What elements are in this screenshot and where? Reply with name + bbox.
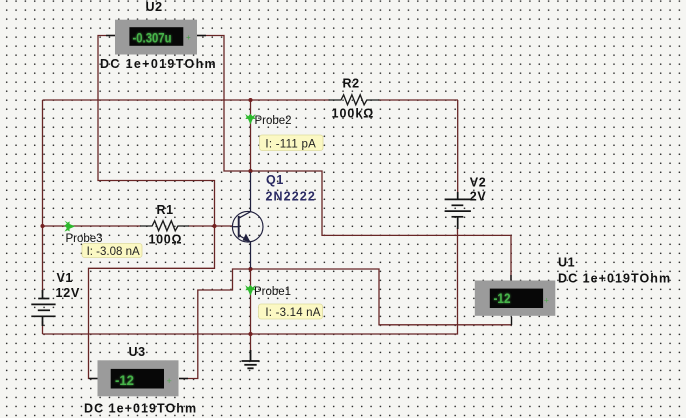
svg-text:DC 1e+019TOhm: DC 1e+019TOhm <box>100 57 217 71</box>
ground <box>242 350 260 368</box>
svg-text:100kΩ: 100kΩ <box>332 107 375 121</box>
transistor Q1 <box>232 172 263 268</box>
node base-right <box>212 224 216 228</box>
svg-text:Q1: Q1 <box>266 173 284 187</box>
svg-text:DC 1e+019TOhm: DC 1e+019TOhm <box>558 272 671 286</box>
wire collector vertical <box>250 100 252 172</box>
wire collector to U1 top <box>251 171 512 281</box>
wire U2 left terminal to base node <box>98 36 215 227</box>
svg-text:U1: U1 <box>558 256 575 270</box>
svg-text:U3: U3 <box>129 345 146 359</box>
svg-text:+: + <box>167 376 172 386</box>
probe Probe3 arrow <box>64 221 75 232</box>
svg-text:Probe1: Probe1 <box>254 286 291 298</box>
meter U3 <box>89 360 188 396</box>
svg-text:Probe3: Probe3 <box>66 233 103 245</box>
probe Probe1 arrow <box>245 285 255 296</box>
junction node dots <box>40 98 252 336</box>
wire top net V1+ to R2 to V2+ <box>43 99 331 101</box>
svg-text:12V: 12V <box>56 286 81 300</box>
svg-text:I: -111 pA: I: -111 pA <box>265 138 316 150</box>
svg-text:U2: U2 <box>146 0 163 14</box>
svg-text:DC 1e+019TOhm: DC 1e+019TOhm <box>84 402 197 416</box>
meter U1 <box>475 275 556 325</box>
svg-text:I: -3.14 nA: I: -3.14 nA <box>265 307 320 319</box>
wire bottom ground bus <box>43 228 458 334</box>
svg-text:Probe2: Probe2 <box>255 115 292 127</box>
node emitter <box>248 267 252 271</box>
Probe2 readout <box>260 135 324 151</box>
battery V2 <box>445 192 471 229</box>
probe Probe2 arrow <box>245 114 255 125</box>
node base-left <box>40 224 44 228</box>
svg-text:2N2222: 2N2222 <box>266 190 316 204</box>
node collector-top <box>248 98 252 102</box>
svg-text:R2: R2 <box>343 77 360 91</box>
wire emitter vertical to ground bus <box>250 268 252 334</box>
svg-text:-12: -12 <box>115 373 134 388</box>
wire V2 top lead <box>457 100 459 194</box>
svg-text:V2: V2 <box>470 176 487 190</box>
node collector-mid <box>248 169 252 173</box>
wire emitter to U1 bottom terminal <box>251 269 512 325</box>
svg-text:-0.307u: -0.307u <box>133 30 172 45</box>
svg-text:V1: V1 <box>57 271 74 285</box>
svg-text:+: + <box>186 33 191 42</box>
meter U2 <box>106 20 206 55</box>
svg-text:100Ω: 100Ω <box>149 233 183 247</box>
wire U3 left terminal to base node <box>89 227 215 379</box>
resistor R1 <box>140 221 189 231</box>
wire U2 right terminal to collector node <box>197 36 251 172</box>
svg-text:I: -3.08 nA: I: -3.08 nA <box>87 246 140 258</box>
svg-text:+: + <box>544 296 549 306</box>
resistor R2 <box>329 95 380 105</box>
wire base row R1 <box>43 225 142 227</box>
wire left vertical V1 <box>42 100 44 293</box>
wire emitter to U3 right terminal <box>179 269 251 379</box>
wire ground stem upper <box>250 334 252 352</box>
battery V1 <box>31 290 55 326</box>
svg-text:-12: -12 <box>494 291 511 306</box>
Probe3 readout <box>82 244 142 259</box>
svg-text:2V: 2V <box>470 190 487 204</box>
Probe1 readout <box>259 304 323 319</box>
svg-text:R1: R1 <box>157 203 174 217</box>
wire V1 bottom to ground bus <box>42 321 44 334</box>
node ground <box>248 332 252 336</box>
